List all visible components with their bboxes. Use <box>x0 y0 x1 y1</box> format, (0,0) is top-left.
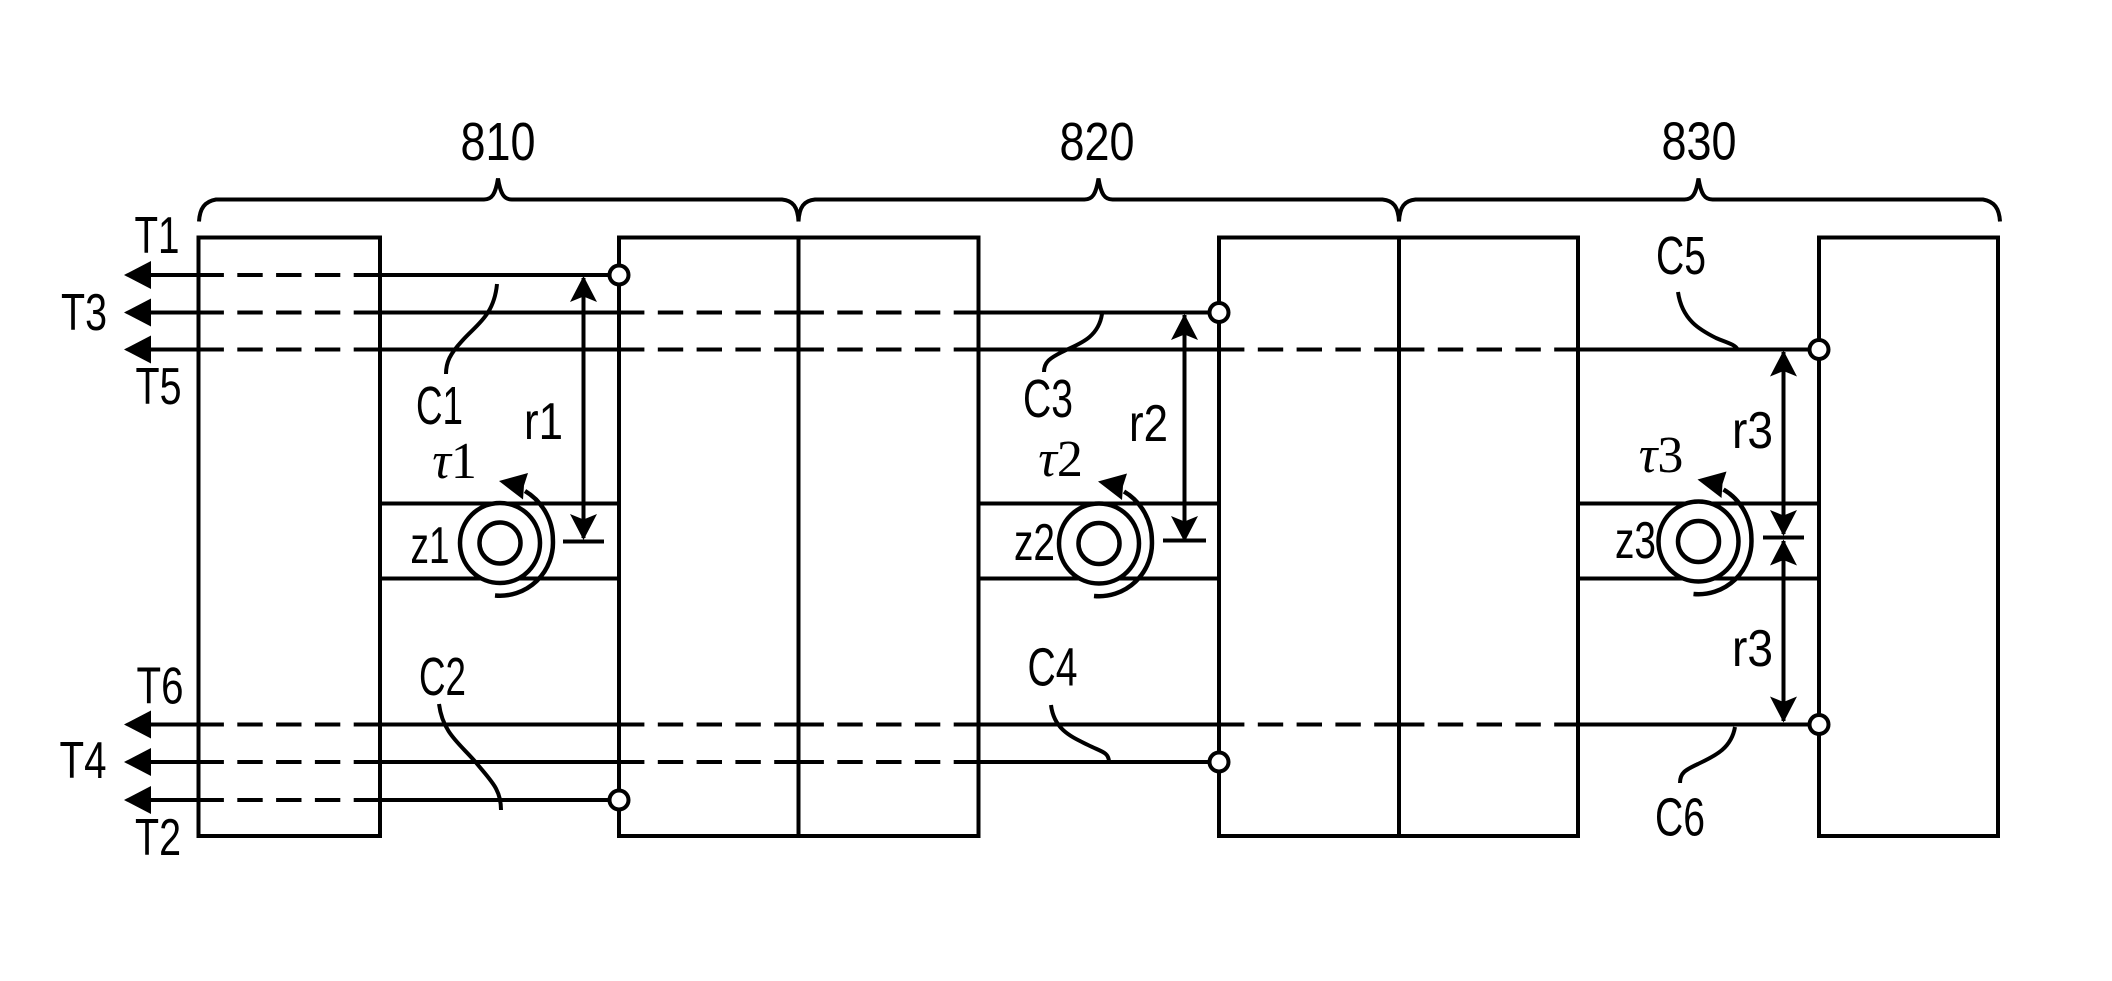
wire T5 dashed segment through plates P2/P3 <box>619 348 799 352</box>
torque arrow tau1 arrowhead <box>499 473 528 500</box>
shared edge between plates P2 and P3 <box>797 238 801 837</box>
leader squiggle for label C5 <box>1678 292 1738 351</box>
torque arrow tau3 arrowhead <box>1698 472 1727 499</box>
node C6 connection point <box>1810 715 1829 734</box>
svg-text:z2: z2 <box>1014 514 1055 572</box>
wire T3/C3 solid segment from block to node <box>979 311 1220 315</box>
wire T4 dashed segment through plate P1 <box>199 760 381 764</box>
wire T4 dashed segment through plate P3 <box>799 760 979 764</box>
svg-text:z3: z3 <box>1615 512 1656 570</box>
wire T6 solid segment from arrow to plate P1 <box>140 723 199 727</box>
wire T5 dashed segment through plate P3 <box>799 348 979 352</box>
dimension arrow r2 (radius of rotor 820) <box>1163 314 1206 542</box>
svg-text:C1: C1 <box>416 376 463 436</box>
wire T5/C5 solid segment from block to node <box>1578 348 1819 352</box>
svg-text:z1: z1 <box>411 517 450 575</box>
torque arrow tau2 (swirl arc around z2) <box>1094 492 1152 597</box>
svg-text:τ3: τ3 <box>1639 427 1684 484</box>
stator plate pair P4/P5 (right plate of 820 / left plate of 830) <box>1219 238 1578 837</box>
wire T3 solid segment across gap 810 <box>380 311 619 315</box>
wire T3 dashed segment through plates P2/P3 <box>619 311 799 315</box>
terminal arrowhead T1 <box>124 261 151 289</box>
svg-text:r3: r3 <box>1732 620 1773 678</box>
rotation axis symbol z1 (inner circle) <box>480 523 521 564</box>
svg-text:T6: T6 <box>137 658 184 716</box>
stator plate P6 (right plate of section 830) <box>1819 238 1998 837</box>
brace for section 820 <box>799 179 1400 222</box>
rotation axis symbol z2 (outer circle) <box>1059 504 1139 584</box>
brace for section 810 <box>199 179 799 222</box>
leader squiggle for label C6 <box>1680 727 1735 783</box>
wire T6 solid segment across gap 820 <box>979 723 1220 727</box>
svg-text:r2: r2 <box>1129 395 1168 453</box>
wire T6 dashed segment through plate P1 <box>199 723 381 727</box>
svg-text:810: 810 <box>461 112 536 172</box>
wire T1/C1 solid segment from block to node <box>380 273 619 277</box>
svg-text:T1: T1 <box>135 207 180 265</box>
stator plate P1 (left plate of section 810) <box>199 238 381 837</box>
rotor upper block of section 830 <box>1578 350 1819 504</box>
torque arrow tau1 (swirl arc around z1) <box>495 491 553 596</box>
torque arrow tau2 arrowhead <box>1098 474 1127 501</box>
node C1 connection point <box>610 266 629 285</box>
rotation axis symbol z3 (inner circle) <box>1678 521 1719 562</box>
svg-text:C5: C5 <box>1656 226 1706 286</box>
wire T6 dashed segment through plates P2/P3 <box>619 723 799 727</box>
rotor lower block of section 830 <box>1578 579 1819 725</box>
brace for section 830 <box>1399 179 2000 222</box>
wire T5 solid segment across gap 820 <box>979 348 1220 352</box>
svg-text:τ2: τ2 <box>1038 431 1083 488</box>
svg-text:τ1: τ1 <box>432 433 477 490</box>
dimension arrow r3 lower (radius of rotor 830, below axis) <box>1770 540 1797 723</box>
svg-text:T5: T5 <box>136 358 182 416</box>
leader squiggle for label C4 <box>1051 705 1109 761</box>
terminal arrowhead T2 <box>124 786 151 814</box>
wire T6 solid segment across gap 810 <box>380 723 619 727</box>
wire T2 solid segment from arrow to plate P1 <box>140 798 199 802</box>
svg-text:C2: C2 <box>419 647 466 707</box>
wire T6 dashed segment through plate P5 <box>1399 723 1578 727</box>
wire T6 dashed segment through plate P3 <box>799 723 979 727</box>
wire T1 solid segment from arrow to plate P1 <box>140 273 199 277</box>
svg-text:C4: C4 <box>1028 638 1078 698</box>
rotor upper block of section 810 <box>380 275 619 504</box>
wire T4 solid segment across gap 810 <box>380 760 619 764</box>
leader squiggle for label C1 <box>446 284 497 374</box>
wire T4 dashed segment through plates P2/P3 <box>619 760 799 764</box>
wire T2/C2 solid segment from block to node <box>380 798 619 802</box>
node C2 connection point <box>610 791 629 810</box>
svg-text:T4: T4 <box>60 732 107 790</box>
wire T1 dashed segment through plate P1 <box>199 273 381 277</box>
rotation axis symbol z3 (outer circle) <box>1659 502 1739 582</box>
svg-text:r1: r1 <box>524 393 563 451</box>
dimension arrow r3 upper (radius of rotor 830, above axis) <box>1763 351 1804 538</box>
rotation axis symbol z2 (inner circle) <box>1079 523 1120 564</box>
svg-text:T2: T2 <box>135 809 181 867</box>
svg-text:830: 830 <box>1662 112 1737 172</box>
wire T5 dashed segment through plates P4/P5 <box>1219 348 1399 352</box>
wire T5 solid segment across gap 810 <box>380 348 619 352</box>
wire T5 dashed segment through plate P1 <box>199 348 381 352</box>
terminal arrowhead T5 <box>124 336 151 364</box>
wire T2 dashed segment through plate P1 <box>199 798 381 802</box>
svg-text:r3: r3 <box>1732 402 1773 460</box>
node C4 connection point <box>1210 753 1229 772</box>
wire T3 solid segment from arrow to plate P1 <box>140 311 199 315</box>
dimension arrow r1 (radius of rotor 810) <box>563 276 604 542</box>
wire T3 dashed segment through plate P1 <box>199 311 381 315</box>
svg-text:C6: C6 <box>1655 788 1705 848</box>
node C5 connection point <box>1810 340 1829 359</box>
stator plate pair P2/P3 (right plate of 810 / left plate of 820) <box>619 238 979 837</box>
svg-text:T3: T3 <box>61 284 107 342</box>
svg-text:820: 820 <box>1060 112 1135 172</box>
shared edge between plates P4 and P5 <box>1397 238 1401 837</box>
wire T5 solid segment from arrow to plate P1 <box>140 348 199 352</box>
leader squiggle for label C3 <box>1044 314 1102 372</box>
wire T4 solid segment from arrow to plate P1 <box>140 760 199 764</box>
leader squiggle for label C2 <box>439 704 501 810</box>
wire T4/C4 solid segment from block to node <box>979 760 1220 764</box>
rotor lower block of section 820 <box>979 579 1220 763</box>
wire T6/C6 solid segment from block to node <box>1578 723 1819 727</box>
rotor lower block of section 810 <box>380 579 619 801</box>
terminal arrowhead T6 <box>124 711 151 739</box>
wire T6 dashed segment through plates P4/P5 <box>1219 723 1399 727</box>
torque arrow tau3 (swirl arc around z3) <box>1694 490 1752 595</box>
terminal arrowhead T4 <box>124 748 151 776</box>
wire T5 dashed segment through plate P5 <box>1399 348 1578 352</box>
wire T3 dashed segment through plate P3 <box>799 311 979 315</box>
rotation axis symbol z1 (outer circle) <box>460 503 540 583</box>
node C3 connection point <box>1210 303 1229 322</box>
terminal arrowhead T3 <box>124 299 151 327</box>
rotor upper block of section 820 <box>979 313 1220 504</box>
svg-text:C3: C3 <box>1023 369 1073 429</box>
